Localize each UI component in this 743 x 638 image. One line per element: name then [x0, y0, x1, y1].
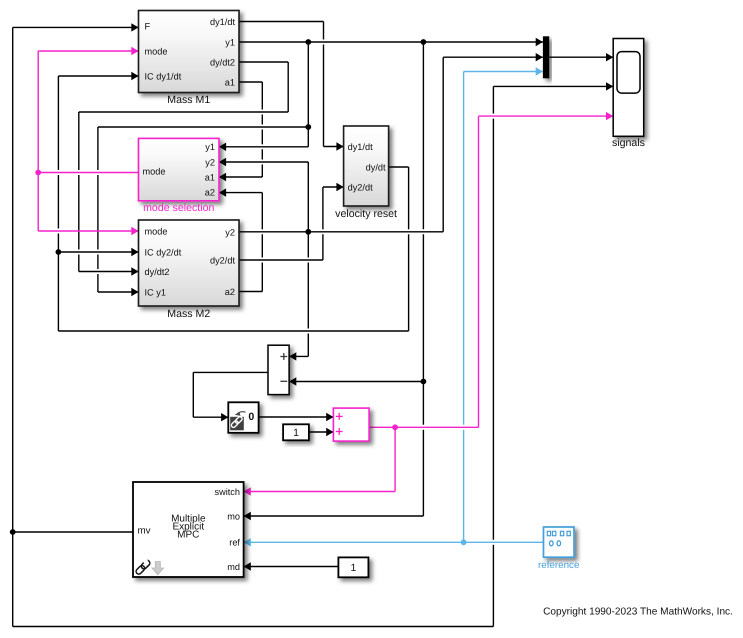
svg-text:mo: mo — [227, 512, 240, 522]
sum block Sum1 — [268, 345, 289, 394]
svg-text:dy/dt2: dy/dt2 — [210, 58, 235, 68]
svg-text:dy1/dt: dy1/dt — [348, 142, 373, 152]
wire C2 to MPC md — [244, 562, 339, 570]
wire dy1/dt M1 to velocity reset — [239, 22, 344, 151]
svg-text:ref: ref — [229, 537, 240, 547]
wire mv to scope via bottom — [13, 82, 614, 626]
wire sum out to IC — [193, 372, 268, 421]
svg-text:mode: mode — [143, 166, 166, 176]
svg-text:Mass M1: Mass M1 — [167, 94, 210, 106]
wire a1 M1 to mode selection — [219, 82, 262, 181]
svg-text:velocity reset: velocity reset — [335, 208, 397, 220]
svg-text:y2: y2 — [205, 157, 215, 167]
svg-text:IC dy1/dt: IC dy1/dt — [145, 72, 182, 82]
svg-text:IC y1: IC y1 — [145, 288, 166, 298]
svg-text:dy2/dt: dy2/dt — [210, 256, 235, 266]
wire y2 to mux — [239, 53, 543, 235]
svg-text:F: F — [145, 22, 151, 32]
wire IC to Sum2 — [259, 413, 334, 421]
svg-text:IC dy2/dt: IC dy2/dt — [145, 248, 182, 258]
svg-text:dy/dt2: dy/dt2 — [145, 267, 170, 277]
wire dy/dt velocity reset to IC ports — [56, 72, 409, 331]
svg-text:a2: a2 — [205, 188, 215, 198]
wire a2 M2 to mode selection — [219, 188, 262, 291]
IC block — [228, 402, 258, 433]
wire dy/dt2 M1 to M2 — [79, 62, 288, 276]
svg-text:a1: a1 — [205, 173, 215, 183]
svg-text:y1: y1 — [205, 142, 215, 152]
wire mux to scope — [549, 53, 613, 61]
wire y2 branch to sum plus — [289, 232, 308, 361]
wire Sum2 branch to MPC switch (magenta) — [244, 427, 396, 495]
block Mass M1 — [139, 11, 240, 107]
svg-text:Mass M2: Mass M2 — [167, 308, 210, 320]
svg-text:mode: mode — [145, 47, 168, 57]
svg-text:Copyright 1990-2023 The MathWo: Copyright 1990-2023 The MathWorks, Inc. — [543, 606, 733, 617]
wire dy2/dt M2 to velocity reset — [239, 183, 344, 260]
copyright text — [543, 606, 733, 617]
svg-text:reference: reference — [538, 560, 580, 571]
block reference (signal editor) — [538, 527, 580, 571]
sum block Sum2 (magenta) — [333, 408, 369, 441]
block mode selection — [139, 138, 220, 214]
wire y1 branch to mode selection y1 and IC y1 — [98, 42, 311, 296]
wire y1 branch to sum minus and MPC mo — [244, 42, 427, 520]
svg-text:1: 1 — [293, 427, 299, 439]
mux — [543, 36, 549, 78]
wire Sum2 out to scope (magenta) — [369, 112, 613, 430]
svg-text:switch: switch — [214, 487, 240, 497]
constant C1 value 1 — [283, 424, 309, 440]
scope signals — [612, 39, 645, 150]
block Mass M2 — [139, 220, 240, 320]
svg-text:y2: y2 — [225, 227, 235, 237]
wire y2 branch to mode selection y2 — [219, 158, 308, 232]
svg-text:mv: mv — [138, 525, 151, 536]
svg-text:a2: a2 — [225, 287, 235, 297]
svg-text:MPC: MPC — [177, 529, 199, 540]
svg-text:dy1/dt: dy1/dt — [210, 17, 235, 27]
block velocity reset — [335, 126, 397, 220]
svg-text:dy2/dt: dy2/dt — [348, 183, 373, 193]
constant C2 value 1 — [338, 557, 368, 577]
svg-text:mode: mode — [145, 227, 168, 237]
svg-text:mode selection: mode selection — [143, 202, 214, 214]
wire mv to F — [10, 23, 139, 535]
wire reference to MPC ref and mux (blue) — [244, 67, 544, 546]
svg-text:a1: a1 — [225, 78, 235, 88]
svg-text:y1: y1 — [225, 38, 235, 48]
block Multiple Explicit MPC — [133, 482, 244, 577]
wire C1 to Sum2 — [309, 428, 334, 436]
svg-text:md: md — [227, 562, 240, 572]
svg-text:0: 0 — [248, 411, 254, 423]
wire mode (magenta) — [35, 47, 138, 235]
wire y1 to mux — [239, 38, 543, 46]
svg-text:dy/dt: dy/dt — [366, 163, 386, 173]
svg-text:1: 1 — [350, 562, 356, 574]
svg-text:signals: signals — [612, 137, 645, 149]
